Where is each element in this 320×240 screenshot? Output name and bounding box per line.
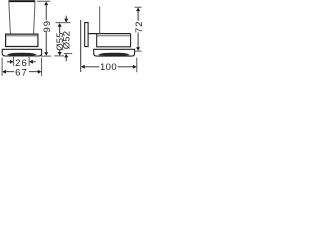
svg-text:99: 99 xyxy=(42,20,53,32)
dim 100 arrows xyxy=(81,65,85,69)
dim 100 right ext xyxy=(136,58,138,73)
glass top rim xyxy=(9,0,36,2)
ring side inner top line xyxy=(97,35,131,37)
dim 26 ext left xyxy=(13,57,15,66)
dim 67 ext right xyxy=(41,58,43,76)
glass left side xyxy=(9,1,11,34)
dim 99 bottom ext xyxy=(41,55,51,57)
glass right side xyxy=(34,1,35,34)
dim O52 top arrow (outside, pointing down) xyxy=(64,19,68,23)
dim 99 arrows xyxy=(44,2,48,6)
glass edge side xyxy=(99,7,101,34)
dim 72 arrows xyxy=(136,8,140,12)
dim O52 bottom ext xyxy=(64,53,72,55)
dim O55 line xyxy=(59,27,61,53)
dim 99 line xyxy=(45,5,47,53)
dim O55 arrows xyxy=(58,23,62,27)
cup side xyxy=(94,49,135,56)
dim 72 top tick xyxy=(135,6,142,8)
dim O52 tail below xyxy=(65,57,67,61)
dim O55 bottom ext xyxy=(54,55,64,57)
dim 26 ext right xyxy=(28,57,30,66)
dim 67 line + arrows xyxy=(5,71,38,73)
svg-text:Ø52: Ø52 xyxy=(62,31,73,50)
cup dark band xyxy=(7,53,37,56)
dim 99 top ext xyxy=(37,0,50,2)
dim 67 ext left xyxy=(1,58,3,76)
dim 26 right arrow xyxy=(32,61,36,63)
cup side dark band xyxy=(98,53,130,56)
wall line xyxy=(80,20,82,72)
svg-text:100: 100 xyxy=(100,62,117,73)
dim 26 left arrow xyxy=(7,61,11,63)
svg-text:72: 72 xyxy=(134,21,145,33)
ring inner top line xyxy=(6,35,38,37)
dim 100 line xyxy=(84,66,134,68)
ring side body xyxy=(97,34,131,47)
dim 72 bottom tick xyxy=(135,50,142,52)
ring side: top line from plate xyxy=(88,33,131,35)
cup front xyxy=(2,49,41,56)
wall plate xyxy=(85,23,88,47)
holder ring front xyxy=(6,34,38,46)
dim O52 bottom arrow (outside, pointing up) xyxy=(64,54,68,58)
dim O52 top tail xyxy=(65,16,67,20)
dim 72 line xyxy=(137,11,139,48)
svg-text:67: 67 xyxy=(15,67,28,78)
shared top ext line xyxy=(56,22,71,24)
